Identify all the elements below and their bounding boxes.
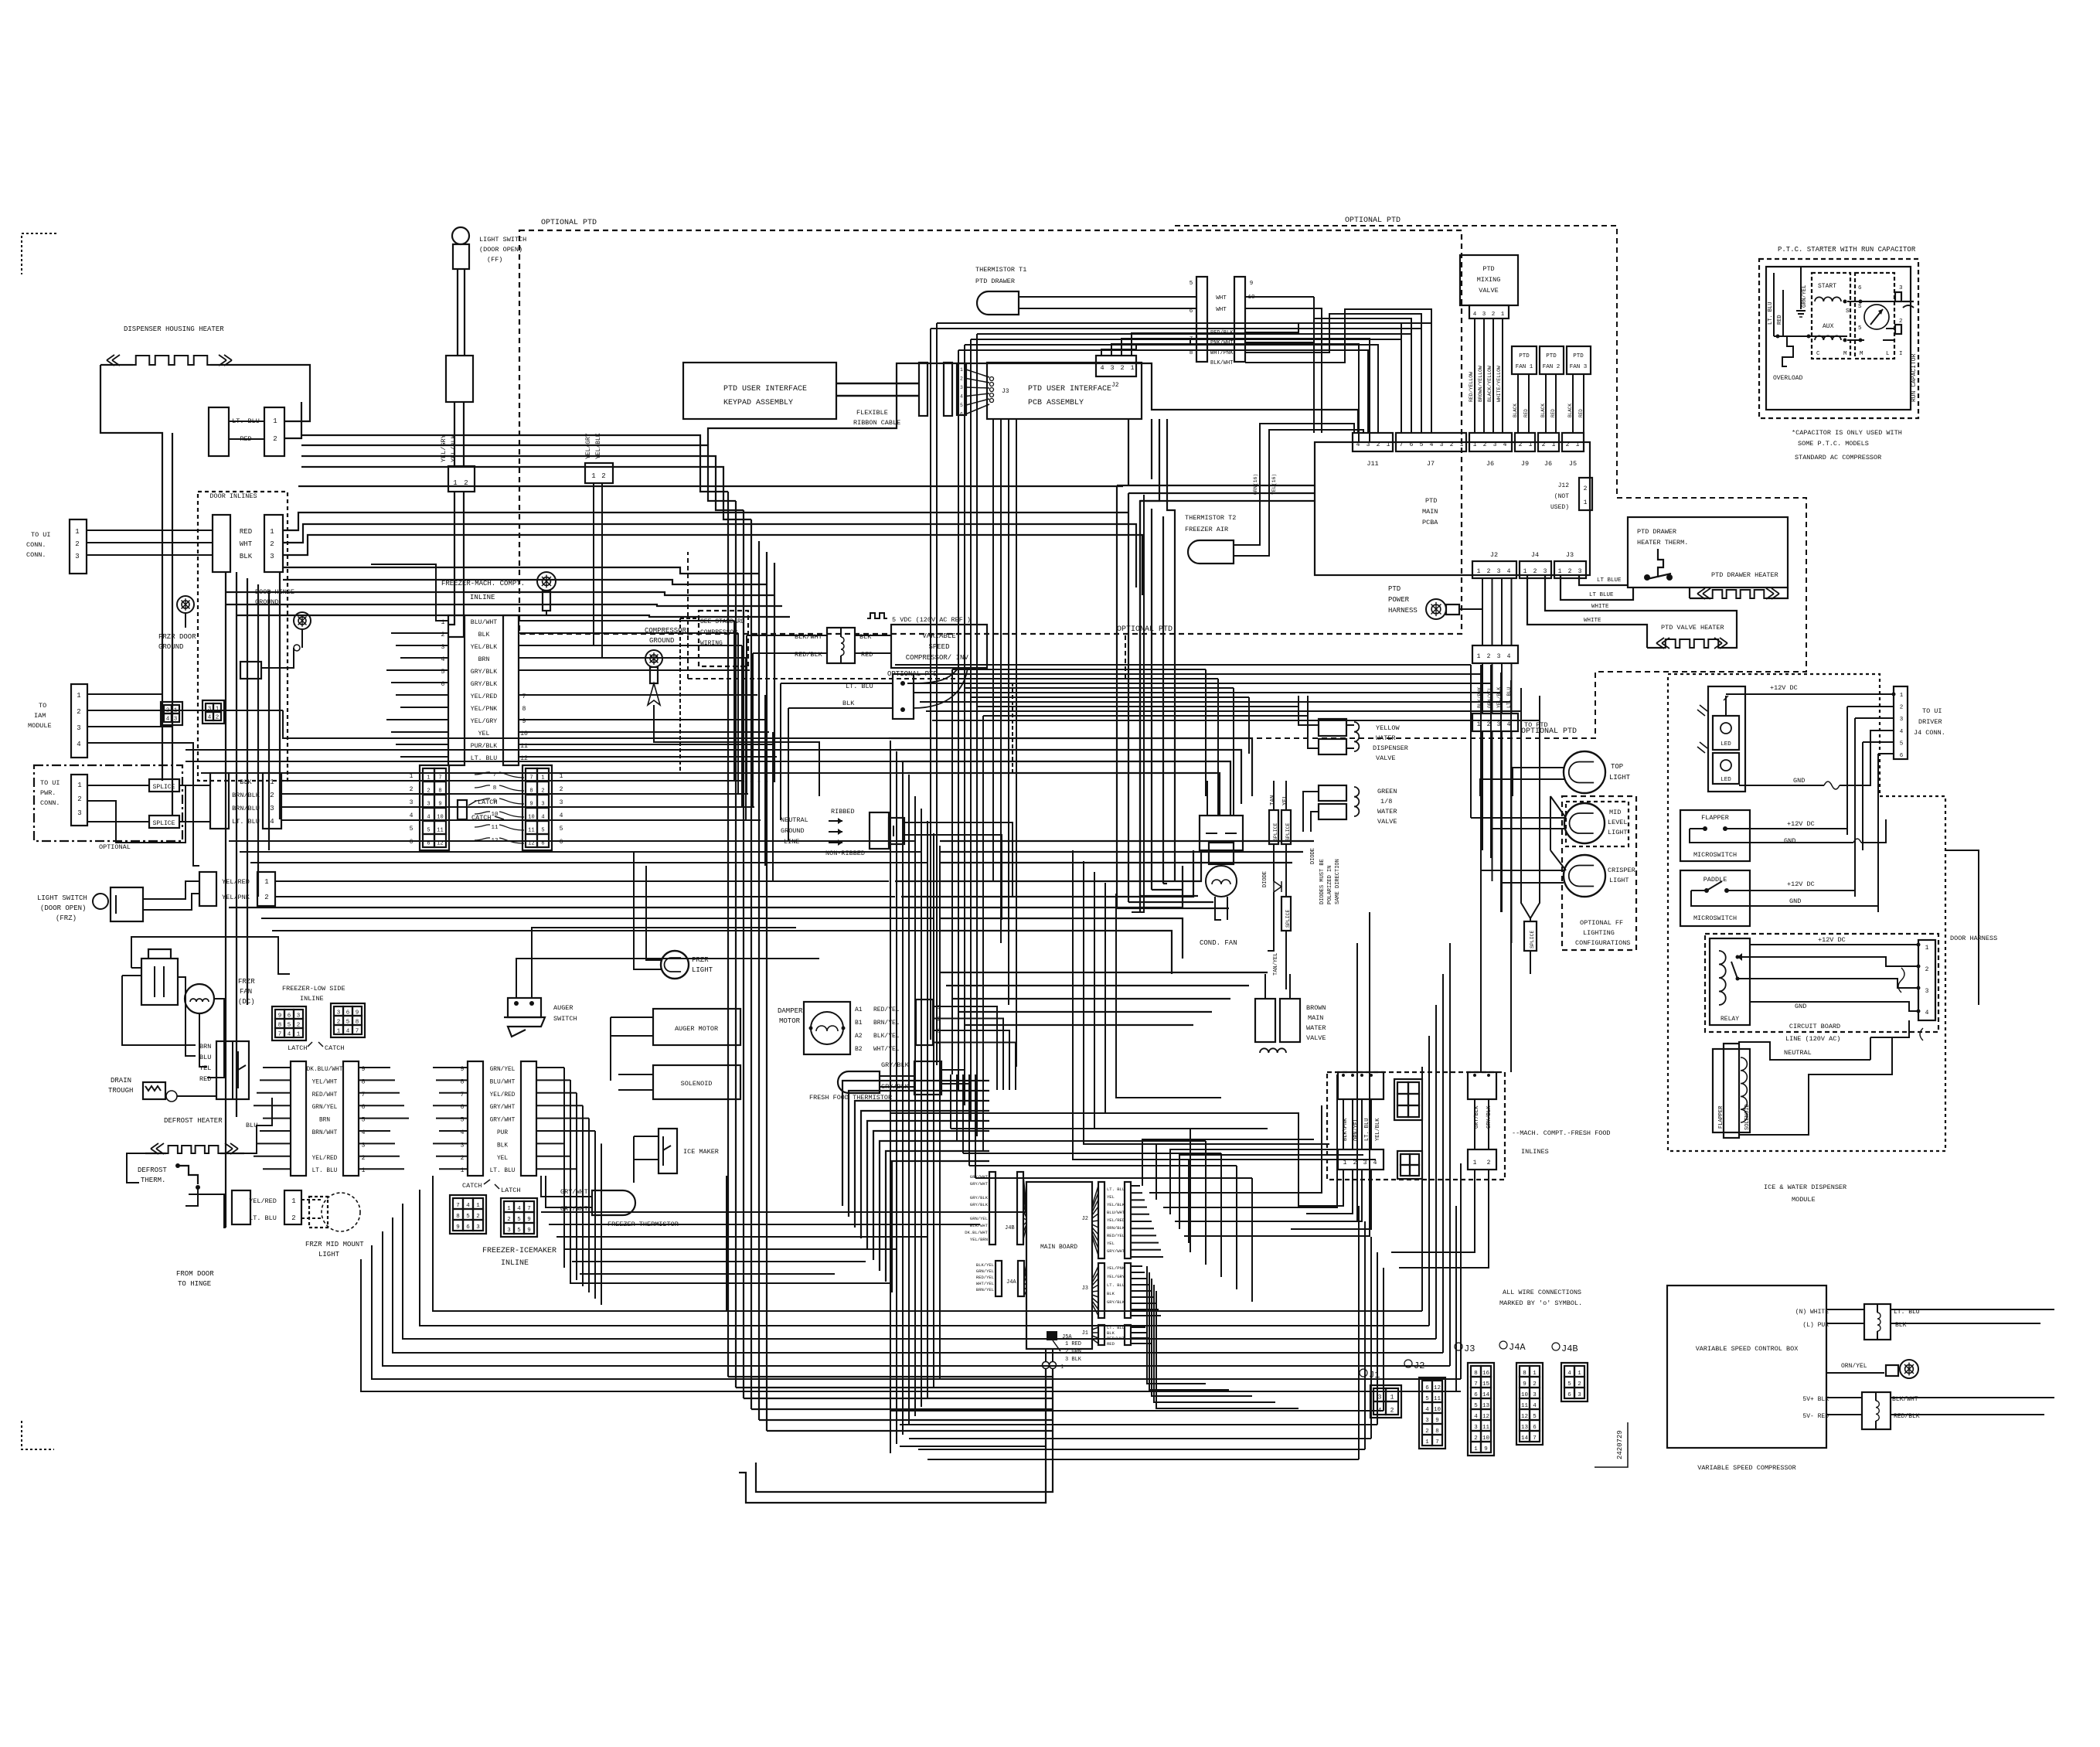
svg-text:1: 1 xyxy=(1060,1364,1064,1371)
wire pcb drop 4 xyxy=(1128,419,1129,485)
wire pcb drop 2 xyxy=(1140,419,1159,912)
svg-text:WHT: WHT xyxy=(1216,295,1227,301)
svg-text:TAN/YEL: TAN/YEL xyxy=(1273,953,1279,976)
cond fan connector box xyxy=(1200,816,1243,850)
svg-text:2: 2 xyxy=(1483,441,1487,448)
svg-text:CONN.: CONN. xyxy=(26,551,46,559)
svg-text:J9: J9 xyxy=(1521,460,1529,468)
svg-text:1: 1 xyxy=(1343,1160,1347,1166)
svg-text:5: 5 xyxy=(1533,1414,1537,1420)
svg-text:1: 1 xyxy=(960,367,963,373)
svg-text:DEFROST: DEFROST xyxy=(138,1166,167,1174)
ptd mixing valve box xyxy=(1460,255,1518,305)
svg-text:I: I xyxy=(1899,351,1903,357)
svg-text:NEUTRAL: NEUTRAL xyxy=(781,816,808,824)
svg-text:BLK: BLK xyxy=(842,700,855,707)
svg-text:WIRING: WIRING xyxy=(700,640,723,647)
svg-text:YEL/GRY: YEL/GRY xyxy=(440,434,448,462)
run capacitor plates xyxy=(1903,301,1914,302)
mid light inner dashed box xyxy=(1566,802,1629,846)
wire h2 stubs left xyxy=(433,1067,468,1068)
wire bus y770 xyxy=(237,615,790,617)
latch tab xyxy=(458,800,467,819)
svg-text:LT. BLU: LT. BLU xyxy=(1364,1119,1370,1141)
top light lamp xyxy=(1564,751,1605,793)
J5A legend xyxy=(1053,1340,1060,1351)
border corner mark top-left xyxy=(22,233,56,274)
wire fmc stubs right xyxy=(519,620,734,621)
svg-text:OPTIONAL PTD: OPTIONAL PTD xyxy=(1117,625,1173,634)
freezer door ground key xyxy=(537,572,556,591)
wire cross bus 0 xyxy=(895,664,1471,666)
svg-text:4: 4 xyxy=(1356,441,1360,448)
svg-text:(FRZ): (FRZ) xyxy=(56,914,77,922)
svg-text:FROM DOOR: FROM DOOR xyxy=(176,1270,214,1278)
svg-text:3: 3 xyxy=(960,385,963,390)
to ptd box 2 xyxy=(1472,713,1518,731)
svg-text:3: 3 xyxy=(1497,568,1501,575)
door inline left box xyxy=(213,515,230,572)
svg-text:1: 1 xyxy=(77,782,81,789)
compressor ground key xyxy=(645,650,662,667)
J4B legend label xyxy=(1552,1343,1560,1350)
svg-text:6: 6 xyxy=(1474,1392,1478,1398)
svg-text:BLU/WHT: BLU/WHT xyxy=(1107,1210,1125,1215)
svg-text:YEL/WHT: YEL/WHT xyxy=(312,1079,338,1085)
svg-text:TROUGH: TROUGH xyxy=(108,1087,133,1095)
svg-text:PTD: PTD xyxy=(1425,497,1437,505)
svg-text:BLK/YEL: BLK/YEL xyxy=(976,1262,994,1268)
ptc wire top xyxy=(1847,301,1864,302)
wire j4b feed 8 xyxy=(891,1204,893,1205)
svg-text:SPLICE: SPLICE xyxy=(153,820,175,827)
svg-text:J1: J1 xyxy=(1369,1370,1380,1381)
svg-text:WHITE: WHITE xyxy=(1591,604,1609,610)
svg-text:5: 5 xyxy=(517,1228,521,1234)
optional ptd dashed box upper-right xyxy=(835,226,1806,738)
svg-text:J4: J4 xyxy=(1531,551,1539,559)
svg-text:8: 8 xyxy=(522,706,526,713)
svg-text:YELLOW: YELLOW xyxy=(1376,724,1401,732)
svg-text:1: 1 xyxy=(1474,1446,1478,1452)
svg-text:RELAY: RELAY xyxy=(1721,1016,1739,1023)
main board bottom connector circles xyxy=(1043,1362,1050,1369)
svg-text:DIODE: DIODE xyxy=(1310,848,1316,864)
wire cb 2 xyxy=(1738,957,1918,966)
svg-text:YEL: YEL xyxy=(478,730,490,737)
svg-text:B2: B2 xyxy=(855,1046,863,1053)
svg-text:BLU: BLU xyxy=(199,1054,211,1061)
wire spine a5 xyxy=(890,741,891,1453)
ptd mixing valve conn xyxy=(1469,305,1509,318)
fuse box 1 xyxy=(827,628,855,663)
svg-text:SOLENOID: SOLENOID xyxy=(681,1080,713,1088)
svg-text:4: 4 xyxy=(1425,1407,1429,1413)
svg-text:3: 3 xyxy=(1900,717,1904,723)
damper motor box xyxy=(804,1002,850,1054)
wire spine a8 xyxy=(927,821,928,1398)
wire board route 1 xyxy=(1149,1105,1322,1193)
svg-text:MICROSWITCH: MICROSWITCH xyxy=(1693,914,1737,922)
wire ff therm xyxy=(880,1075,914,1077)
wire vs red xyxy=(753,652,827,654)
svg-text:MODULE: MODULE xyxy=(1792,1196,1816,1204)
svg-text:J4A: J4A xyxy=(1509,1342,1526,1353)
svg-text:2: 2 xyxy=(1474,1435,1478,1442)
wire vc bot 4 xyxy=(1163,883,1167,884)
paddle contacts xyxy=(1704,888,1709,893)
wire mid ext 3 xyxy=(940,862,1292,863)
svg-text:1: 1 xyxy=(1477,653,1481,660)
svg-text:GRY/WHT: GRY/WHT xyxy=(490,1118,516,1124)
svg-text:8: 8 xyxy=(1190,350,1193,356)
svg-text:7: 7 xyxy=(1435,1439,1439,1446)
wire diode col xyxy=(1273,781,1275,810)
svg-text:LIGHT SWITCH: LIGHT SWITCH xyxy=(37,894,87,902)
svg-text:OPTIONAL PTD: OPTIONAL PTD xyxy=(1345,216,1401,225)
wire led 12v xyxy=(1726,693,1894,695)
wire white 1 xyxy=(1545,575,1737,639)
svg-text:2: 2 xyxy=(216,715,220,721)
wire white 2 xyxy=(1527,575,1647,639)
svg-text:2 GRN: 2 GRN xyxy=(1065,1349,1081,1355)
svg-text:PADDLE: PADDLE xyxy=(1703,876,1727,884)
wire pcb bottom v 1 xyxy=(1000,419,1002,943)
ff thermistor connector xyxy=(914,1061,941,1095)
svg-text:3: 3 xyxy=(1367,441,1370,448)
svg-text:11: 11 xyxy=(1434,1396,1441,1402)
svg-text:1: 1 xyxy=(507,1206,511,1212)
svg-text:COND. FAN: COND. FAN xyxy=(1200,939,1237,947)
J1 legend label xyxy=(1360,1369,1367,1377)
wire vlow 4 xyxy=(758,781,760,1420)
wire board route J3 xyxy=(1147,1266,1206,1384)
wire band986 3 xyxy=(901,761,1230,816)
svg-text:14: 14 xyxy=(1482,1392,1490,1398)
wire h2 stubs right xyxy=(536,1067,564,1068)
svg-text:1: 1 xyxy=(1473,1160,1477,1166)
svg-text:J3: J3 xyxy=(1464,1343,1475,1354)
T1 connector strip B xyxy=(1234,277,1245,362)
svg-text:J4A: J4A xyxy=(1006,1279,1016,1286)
wire J7 left 4 xyxy=(931,329,1421,433)
wire im down 3 xyxy=(582,1105,584,1286)
svg-text:4: 4 xyxy=(1373,1160,1377,1166)
ptd power harness key xyxy=(1426,599,1446,619)
conn frz light box xyxy=(284,1190,301,1224)
svg-text:6: 6 xyxy=(560,839,563,846)
wire spine a9 xyxy=(939,846,941,1379)
svg-text:2: 2 xyxy=(270,792,274,799)
wire lt blue 1 xyxy=(1579,575,1628,585)
svg-text:BLK/YEL: BLK/YEL xyxy=(873,1033,900,1040)
wire auger motor xyxy=(611,1017,653,1018)
wire IAM pin4 xyxy=(87,743,199,866)
wire vs curve2 xyxy=(914,668,968,708)
svg-text:5: 5 xyxy=(466,1214,470,1220)
svg-text:LT. BLU: LT. BLU xyxy=(1107,1325,1125,1330)
svg-text:YEL/BLK: YEL/BLK xyxy=(595,433,602,459)
svg-text:YEL/PNK: YEL/PNK xyxy=(222,894,250,901)
svg-text:POWER: POWER xyxy=(1388,596,1410,604)
wire vc 4 xyxy=(1162,516,1164,884)
svg-text:3: 3 xyxy=(1363,1160,1367,1166)
svg-text:DOOR HARNESS: DOOR HARNESS xyxy=(1950,935,1997,942)
svg-text:2: 2 xyxy=(560,786,563,793)
svg-text:8: 8 xyxy=(456,1214,460,1220)
svg-text:FRZR MID MOUNT: FRZR MID MOUNT xyxy=(305,1241,364,1248)
wire bottom bus2 1 xyxy=(900,1424,1377,1425)
svg-text:GRN/YEL: GRN/YEL xyxy=(490,1067,516,1073)
svg-text:2: 2 xyxy=(1566,441,1570,448)
wire vlow 3 xyxy=(750,781,752,1409)
svg-text:BLK: BLK xyxy=(1107,1291,1115,1296)
svg-text:12: 12 xyxy=(1482,1414,1489,1420)
wire right loop 4 xyxy=(1116,894,1221,1098)
to UI conn box xyxy=(70,519,87,574)
wire right spine 1 xyxy=(1470,665,1472,818)
wire j4b corner 7 xyxy=(886,1151,989,1282)
svg-text:1: 1 xyxy=(291,1197,295,1205)
wire j4b corner 3 xyxy=(861,1111,989,1238)
wire board route 2 xyxy=(1156,1144,1329,1200)
wire mach compt D out xyxy=(1391,1170,1475,1252)
svg-text:2: 2 xyxy=(507,1217,511,1223)
to ptd box 1 xyxy=(1472,645,1518,663)
wire band1139 2 xyxy=(901,850,1193,897)
wire vs top xyxy=(1826,1309,1864,1310)
conn pair YEL right box xyxy=(257,872,275,906)
svg-text:BLK: BLK xyxy=(240,778,252,786)
wire from conn right xyxy=(281,780,742,782)
harness strip2 left xyxy=(468,1061,483,1176)
door hinge ground clip xyxy=(240,662,261,679)
svg-text:2: 2 xyxy=(427,788,430,794)
frzr light lamp xyxy=(661,951,689,979)
svg-text:YEL/PNK: YEL/PNK xyxy=(1107,1265,1125,1271)
svg-text:3 BLK: 3 BLK xyxy=(1065,1357,1082,1363)
svg-text:FAN: FAN xyxy=(240,988,252,996)
svg-text:6: 6 xyxy=(1533,1425,1537,1431)
frzr fan plug xyxy=(141,959,178,1005)
splice vertical box xyxy=(1524,921,1537,951)
svg-text:4: 4 xyxy=(270,818,274,826)
svg-text:FRZR: FRZR xyxy=(692,956,709,964)
paddle microswitch box xyxy=(1680,870,1750,926)
wire top bus y678 xyxy=(283,524,1136,587)
wire defrost loop xyxy=(127,1153,145,1183)
wire right spine 5 xyxy=(1510,680,1512,1072)
svg-text:9: 9 xyxy=(1484,1446,1488,1452)
svg-text:1: 1 xyxy=(410,773,414,780)
svg-text:5: 5 xyxy=(1474,1403,1478,1409)
svg-text:1: 1 xyxy=(1501,312,1505,318)
svg-text:13: 13 xyxy=(1521,1425,1529,1431)
svg-text:WHT: WHT xyxy=(240,540,253,548)
flapper solenoid coil xyxy=(1741,1057,1747,1122)
svg-text:THERM.: THERM. xyxy=(141,1177,165,1184)
splice rotated 3 xyxy=(1281,897,1291,931)
svg-text:6: 6 xyxy=(1410,441,1414,448)
svg-text:6: 6 xyxy=(1858,285,1862,291)
svg-text:J4B: J4B xyxy=(1005,1225,1015,1231)
svg-text:3: 3 xyxy=(1497,721,1501,728)
svg-text:6: 6 xyxy=(427,840,430,846)
svg-text:GROUND: GROUND xyxy=(781,827,805,835)
main board box xyxy=(1026,1182,1092,1349)
J4B legend grid xyxy=(1561,1363,1588,1401)
wire right spine 4 xyxy=(1500,673,1502,912)
svg-text:1: 1 xyxy=(1473,441,1477,448)
svg-text:7: 7 xyxy=(356,1028,359,1034)
wire cb squiggles xyxy=(1898,968,1923,1040)
svg-text:(DOOR OPEN): (DOOR OPEN) xyxy=(40,904,86,912)
svg-text:RED/WHT: RED/WHT xyxy=(1107,1336,1125,1341)
thermistor T2 bullet xyxy=(1188,540,1234,564)
cb pin strip xyxy=(1918,940,1935,1020)
damper connector strip xyxy=(916,1000,933,1045)
J4A legend grid xyxy=(1516,1363,1543,1445)
svg-text:TO HINGE: TO HINGE xyxy=(178,1280,211,1288)
svg-text:YEL/GRY: YEL/GRY xyxy=(471,717,497,725)
comp motor dashed box xyxy=(1812,273,1850,359)
led box 2 xyxy=(1713,753,1739,784)
svg-text:1: 1 xyxy=(476,1203,480,1209)
wire cross bus 1 xyxy=(901,673,1481,675)
door inlines dashed box xyxy=(198,492,288,781)
svg-text:+12V DC: +12V DC xyxy=(1787,880,1815,888)
yellow water dispenser valve sym xyxy=(1319,719,1346,736)
svg-text:RED/WHT: RED/WHT xyxy=(312,1092,338,1098)
svg-text:11: 11 xyxy=(528,827,534,833)
svg-text:CATCH: CATCH xyxy=(462,1182,482,1190)
wire left bundle 1 xyxy=(225,572,226,1228)
svg-text:2: 2 xyxy=(1492,312,1496,318)
svg-text:LT. BLU: LT. BLU xyxy=(1107,1187,1125,1192)
svg-text:6: 6 xyxy=(960,412,963,417)
wire left bundle 6 xyxy=(279,572,281,819)
defrost heater coil xyxy=(166,1146,220,1153)
svg-text:SWITCH: SWITCH xyxy=(553,1015,577,1023)
wire pwr pin2 xyxy=(87,785,185,843)
svg-text:L: L xyxy=(1886,351,1890,357)
svg-text:BLK: BLK xyxy=(497,1143,508,1149)
svg-text:7: 7 xyxy=(1474,1381,1478,1388)
svg-text:4: 4 xyxy=(1507,653,1511,660)
mach compt connector C xyxy=(1468,1072,1496,1099)
optional ptd dashed compressor xyxy=(687,552,689,679)
wire j4b corner 8 xyxy=(892,1161,989,1292)
svg-text:12: 12 xyxy=(528,840,534,846)
wire to ptd mid xyxy=(1482,663,1483,713)
svg-text:7: 7 xyxy=(1533,1435,1537,1442)
wire loop mb 2 xyxy=(939,881,941,1113)
ribbon cable bars xyxy=(919,363,927,416)
wire left bundle 5 xyxy=(268,591,270,850)
ptc wire mid xyxy=(1847,339,1864,341)
svg-text:GND: GND xyxy=(1789,897,1801,905)
svg-text:12: 12 xyxy=(437,840,443,846)
wire mixing valve down xyxy=(1474,318,1475,433)
svg-text:YEL/PNK: YEL/PNK xyxy=(471,705,497,713)
wire vlow 0 xyxy=(727,781,729,1377)
svg-text:7: 7 xyxy=(438,775,441,781)
svg-text:5: 5 xyxy=(541,827,544,833)
svg-text:J3: J3 xyxy=(1082,1286,1088,1292)
svg-text:3: 3 xyxy=(507,1228,511,1234)
svg-text:4: 4 xyxy=(1900,729,1904,735)
svg-text:GRN/YEL: GRN/YEL xyxy=(976,1269,994,1274)
svg-text:J12: J12 xyxy=(1558,482,1570,489)
wire v 940 xyxy=(727,1176,890,1311)
wire right spine 2 xyxy=(1480,665,1482,1072)
splice rotated 1 xyxy=(1269,810,1278,844)
svg-text:BLK: BLK xyxy=(478,632,490,639)
svg-text:1: 1 xyxy=(1390,1394,1394,1401)
svg-text:8: 8 xyxy=(493,785,497,792)
svg-text:MODULE: MODULE xyxy=(28,722,52,730)
wire long t2 xyxy=(1132,495,1144,912)
svg-text:3: 3 xyxy=(560,799,563,806)
svg-text:BLACK: BLACK xyxy=(1540,404,1546,417)
svg-text:GND: GND xyxy=(1793,777,1805,785)
wire j4b feed 4 xyxy=(866,1166,868,1168)
svg-text:5: 5 xyxy=(1858,325,1862,332)
ptc varistor xyxy=(1864,305,1889,329)
svg-text:PUR: PUR xyxy=(497,1130,508,1136)
wire T2 xyxy=(1234,424,1354,545)
svg-text:5: 5 xyxy=(1420,441,1424,448)
wire yel pair down xyxy=(519,483,594,645)
svg-text:MIXING: MIXING xyxy=(1477,276,1501,284)
wire cross bus 2 xyxy=(907,683,1491,684)
svg-text:5V+ BLK: 5V+ BLK xyxy=(1802,1396,1829,1403)
frzr mid mount light circle xyxy=(322,1193,360,1231)
variable speed compressor box xyxy=(891,625,987,668)
svg-text:4: 4 xyxy=(560,812,563,819)
svg-text:FREEZER-MACH. COMPT.: FREEZER-MACH. COMPT. xyxy=(441,580,525,587)
splice box 1 xyxy=(149,779,179,792)
svg-text:J11: J11 xyxy=(1367,460,1378,468)
ribbed arrows xyxy=(829,820,842,822)
main board J2 strip xyxy=(1098,1182,1104,1258)
wire vc 3 xyxy=(1151,509,1152,890)
wire j4b corner 5 xyxy=(873,1131,989,1260)
wire lower loop 3 xyxy=(968,1074,970,1166)
J3 legend label xyxy=(1455,1343,1462,1350)
svg-text:LIGHT: LIGHT xyxy=(1609,877,1629,884)
wire solenoid neutral xyxy=(1739,1042,1870,1060)
wire J7 left 2 xyxy=(971,339,1401,433)
svg-text:2: 2 xyxy=(1899,318,1903,325)
svg-text:2: 2 xyxy=(601,472,605,480)
svg-text:1: 1 xyxy=(1552,441,1556,448)
svg-text:7: 7 xyxy=(529,775,533,781)
svg-text:CATCH: CATCH xyxy=(471,814,492,822)
svg-text:2: 2 xyxy=(960,376,963,382)
svg-text:9: 9 xyxy=(1523,1381,1526,1388)
wire vtop 3 xyxy=(750,519,752,782)
wire crisper light xyxy=(1481,870,1564,871)
mach compt connector B xyxy=(1338,1149,1384,1170)
wire brown valve xyxy=(1264,974,1266,999)
wire im down 1 xyxy=(570,1080,571,1274)
svg-text:1: 1 xyxy=(1558,568,1562,575)
wire T1 4wires xyxy=(1245,323,1401,433)
svg-text:2: 2 xyxy=(476,1214,480,1220)
harness strip2 right xyxy=(521,1061,536,1176)
wire mid2 bus 2 xyxy=(952,998,1230,1000)
